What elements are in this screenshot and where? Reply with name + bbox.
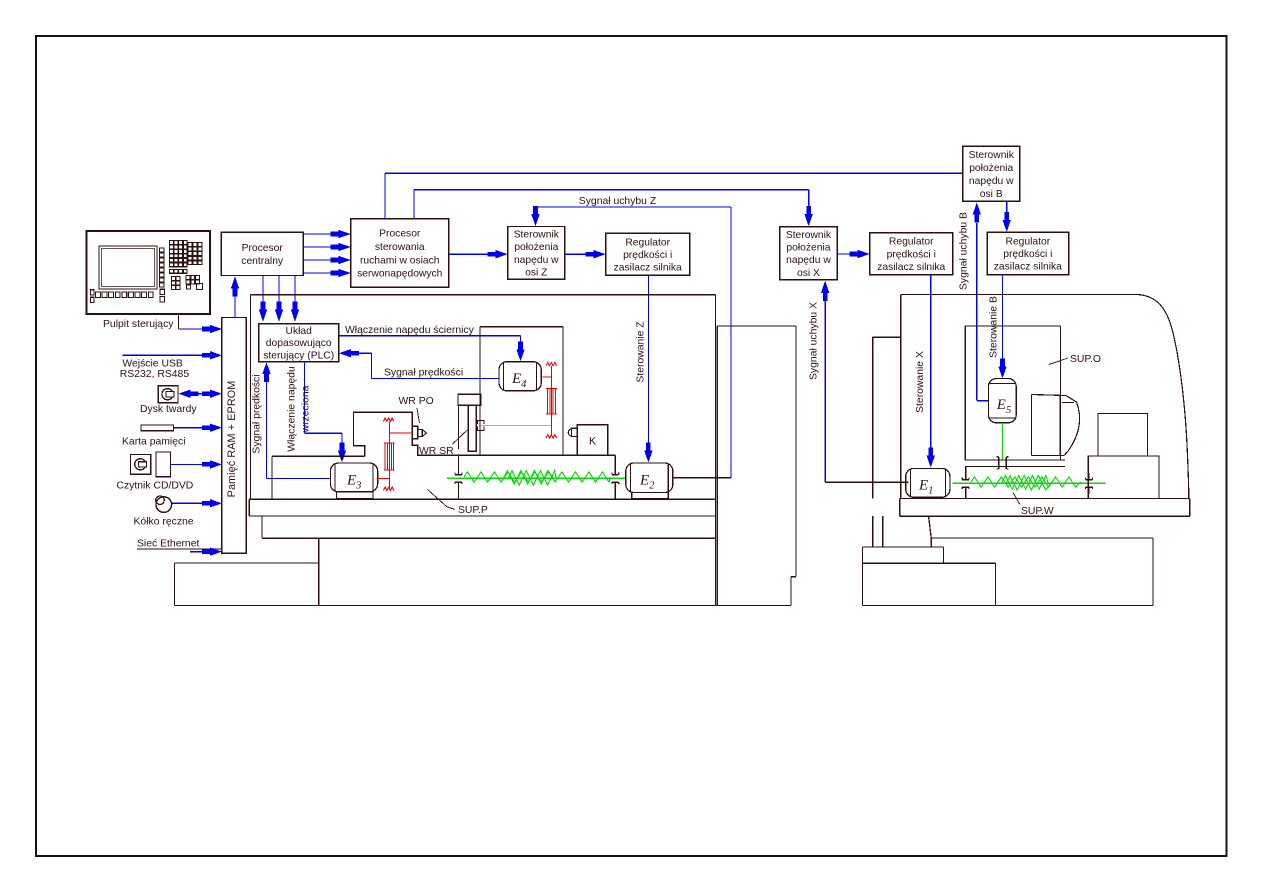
handwheel icon (156, 496, 172, 513)
svg-text:położenia: położenia (514, 242, 558, 253)
svg-text:SUP.O: SUP.O (1070, 354, 1101, 365)
svg-text:Sygnał uchybu X: Sygnał uchybu X (809, 302, 820, 380)
box Sterownik polozenia napedu w osi B (963, 146, 1020, 201)
wire Sygnal uchybu B (976, 223, 978, 401)
left machine wheel-head box (480, 327, 563, 456)
wire Wlaczenie napedu wrzeciona (303, 362, 305, 434)
svg-text:Regulator: Regulator (1006, 236, 1051, 247)
svg-text:WR PO: WR PO (399, 396, 434, 407)
hard disk icon (158, 386, 178, 403)
left machine base (174, 538, 791, 606)
motor E2 (626, 463, 673, 493)
svg-text:zasilacz silnika: zasilacz silnika (614, 263, 682, 274)
svg-text:Sterownik: Sterownik (786, 230, 832, 241)
wire Sygnal predkosci E4 to PLC (339, 349, 359, 357)
motor E1 (906, 468, 950, 497)
grinding wheel belt drive (red) (542, 362, 557, 438)
svg-text:Sieć Ethernet: Sieć Ethernet (137, 539, 199, 550)
svg-text:SUP.P: SUP.P (458, 505, 488, 516)
svg-text:dopasowująco: dopasowująco (266, 338, 332, 349)
svg-text:napędu w: napędu w (786, 255, 831, 266)
left machine enclosure (251, 295, 716, 606)
box Procesor centralny (221, 232, 303, 275)
svg-text:Sygnał uchybu B: Sygnał uchybu B (959, 212, 970, 290)
memory card icon (141, 425, 174, 431)
wire Sygnal uchybu Z (535, 207, 537, 209)
svg-text:Pamięć RAM + EPROM: Pamięć RAM + EPROM (226, 381, 238, 498)
svg-text:Dysk twardy: Dysk twardy (140, 404, 197, 415)
leadscrew Z (green) (447, 471, 626, 485)
svg-text:Czytnik CD/DVD: Czytnik CD/DVD (117, 481, 194, 492)
svg-text:Regulator: Regulator (889, 237, 934, 248)
motor E3 pedestal (337, 492, 373, 499)
box Regulator predkosci i zasilacz silnika (B) (987, 232, 1069, 274)
wire Sterowanie X (930, 275, 932, 449)
left machine saddle band (262, 516, 715, 538)
svg-text:położenia: położenia (969, 163, 1013, 174)
svg-text:Wejście USB: Wejście USB (122, 359, 183, 370)
svg-text:Sterowanie X: Sterowanie X (915, 351, 926, 413)
svg-text:Regulator: Regulator (625, 237, 670, 248)
label SUP.P with leader (427, 489, 455, 509)
svg-text:Włączenie napędu ściernicy: Włączenie napędu ściernicy (345, 325, 475, 336)
svg-text:zasilacz silnika: zasilacz silnika (877, 262, 945, 273)
wires Procesor centralny to PLC (3 arrows) (262, 276, 264, 303)
tailstock WR SR (458, 394, 481, 451)
svg-text:serwonapędowych: serwonapędowych (357, 269, 443, 280)
wire panel to RAM strip (178, 314, 180, 329)
wire Kolko reczne (171, 502, 212, 504)
svg-text:osi X: osi X (797, 268, 820, 279)
wire Sygnal predkosci E3 to PLC (266, 382, 268, 478)
right machine base (863, 516, 1153, 605)
wire Sterowanie Z (647, 275, 649, 444)
CD/DVD reader icon (131, 452, 171, 477)
workpiece centre marks (478, 420, 484, 424)
wire Wlaczenie napedu sciernicy (339, 335, 521, 337)
svg-text:Kółko ręczne: Kółko ręczne (134, 517, 194, 528)
label SUP.W with leader (1013, 493, 1020, 505)
clamp symbol near K (568, 429, 572, 436)
svg-text:Sterowanie B: Sterowanie B (989, 296, 1000, 358)
box Sterownik polozenia napedu w osi X (780, 227, 838, 280)
wire Czytnik CD/DVD (171, 463, 212, 465)
svg-text:prędkości i: prędkości i (623, 250, 672, 261)
svg-text:zasilacz silnika: zasilacz silnika (994, 262, 1062, 273)
wire Karta pamieci (174, 427, 212, 429)
headstock platform and leg (272, 455, 365, 457)
block Pamiec RAM + EPROM (222, 318, 247, 554)
spindle belt drive (red) (377, 418, 413, 491)
right tailstock pedestal (1088, 456, 1159, 499)
workpiece headstock outline (354, 412, 427, 456)
svg-text:K: K (589, 435, 596, 447)
svg-text:ruchami w osiach: ruchami w osiach (360, 255, 440, 266)
svg-text:osi Z: osi Z (525, 267, 547, 278)
svg-text:Sygnał prędkości: Sygnał prędkości (384, 367, 463, 378)
control panel icon (Pulpit sterujacy) (87, 231, 211, 314)
wire to Sterownik osi B (top line) (384, 173, 386, 219)
svg-text:osi B: osi B (980, 189, 1003, 200)
left machine table band (249, 499, 715, 516)
svg-text:Sterowanie Z: Sterowanie Z (636, 321, 647, 383)
box Regulator predkosci i zasilacz silnika (X) (870, 233, 953, 275)
svg-text:Układ: Układ (286, 326, 313, 337)
box Uklad dopasowujaco sterujacy (PLC) (259, 324, 339, 362)
wire Procesor sterowania to Sterownik Z (449, 253, 490, 255)
left machine right tower (717, 326, 796, 605)
svg-text:Włączenie napędu: Włączenie napędu (287, 366, 298, 452)
motor E4 (499, 362, 541, 391)
SUP.O wheel-head box (965, 326, 1060, 460)
right machine enclosure (901, 295, 1189, 499)
box Procesor sterowania ruchami w osiach serwonapedowych (351, 219, 449, 287)
leadscrew bearings (left machine) (455, 455, 619, 498)
wire Sterownik Z to Regulator Z (565, 253, 588, 255)
svg-text:prędkości i: prędkości i (887, 249, 936, 260)
B axis platform (965, 457, 1065, 469)
svg-text:Pulpit sterujący: Pulpit sterujący (103, 319, 174, 330)
svg-text:Sterownik: Sterownik (969, 150, 1015, 161)
svg-text:Sygnał prędkości: Sygnał prędkości (252, 374, 263, 453)
wire Siec Ethernet (137, 548, 222, 550)
svg-text:napędu w: napędu w (514, 255, 559, 266)
wire RAM strip to Procesor centralny (234, 294, 236, 318)
wire Wejscie USB (123, 354, 212, 356)
wire Sterownik B to Regulator B (1006, 201, 1008, 214)
wire Dysk twardy (bidirectional) (196, 393, 206, 395)
wire to Sterownik osi X (413, 190, 415, 219)
motor E2 pedestal (632, 493, 669, 499)
box K (577, 425, 608, 456)
box Regulator predkosci i zasilacz silnika (Z) (606, 233, 690, 275)
wire E2 encoder to uchyb Z line (673, 477, 731, 479)
wires Procesor centralny to Procesor sterowania (4 arrows) (303, 233, 332, 235)
svg-text:sterowania: sterowania (375, 242, 425, 253)
right machine left column (873, 337, 901, 498)
svg-text:centralny: centralny (241, 256, 284, 267)
svg-text:Procesor: Procesor (379, 229, 421, 240)
B axis drive shaft (green) (1002, 423, 1004, 460)
leadscrew W (green) (952, 476, 1105, 490)
grinding axis line (pink) (481, 424, 552, 426)
leadscrew bearings (right machine) (962, 466, 1092, 498)
svg-text:wrzeciona: wrzeciona (301, 385, 312, 433)
motor E5 (vertical) (988, 379, 1016, 423)
svg-text:RS232, RS485: RS232, RS485 (120, 369, 190, 380)
svg-text:Procesor: Procesor (242, 243, 284, 254)
svg-text:SUP.W: SUP.W (1021, 506, 1054, 517)
wire Sterownik X to Regulator X (837, 253, 852, 255)
svg-text:Sygnał uchybu Z: Sygnał uchybu Z (579, 196, 657, 207)
label SUP.O with leader (1049, 358, 1068, 365)
box Sterownik polozenia napedu w osi Z (508, 227, 565, 280)
SUP.W band (900, 499, 1190, 517)
svg-text:położenia: położenia (786, 243, 830, 254)
wire Sterowanie B (1002, 275, 1004, 360)
svg-text:prędkości i: prędkości i (1003, 249, 1052, 260)
carriage deck (418, 454, 616, 456)
grinding wheel assembly (1032, 395, 1080, 456)
svg-text:Karta pamięci: Karta pamięci (122, 436, 186, 447)
svg-text:Sterownik: Sterownik (514, 230, 560, 241)
right tailstock box (1098, 414, 1148, 456)
svg-text:sterujący (PLC): sterujący (PLC) (263, 350, 334, 361)
wire Sygnal uchybu X (824, 301, 826, 482)
motor E3 (330, 463, 377, 492)
svg-text:napędu w: napędu w (969, 176, 1014, 187)
